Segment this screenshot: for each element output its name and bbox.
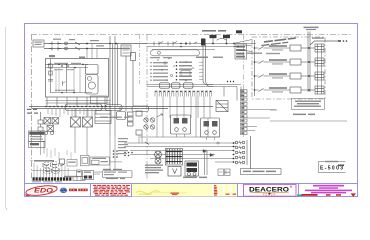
section border dash-dot middle bbox=[146, 35, 148, 182]
relay row 1 sublabel bbox=[272, 49, 283, 50]
title strip divider 4 bbox=[298, 184, 300, 197]
wire TB side ticks bbox=[199, 62, 203, 79]
panel box trio C label bbox=[101, 161, 109, 162]
terminal list TB2 bbox=[150, 62, 168, 81]
EDO logo swoosh ellipse bbox=[25, 184, 57, 197]
junction dot riser 3 bbox=[254, 75, 256, 77]
relay row 3 sublabel bbox=[272, 77, 283, 78]
EDO logo swoosh tail bbox=[26, 194, 31, 195]
regulator box AVR bbox=[86, 65, 99, 75]
junction dot riser 2 bbox=[254, 61, 256, 63]
output contact row 2 bbox=[235, 146, 245, 150]
left column note rows bbox=[118, 138, 128, 154]
control box mid bbox=[95, 111, 111, 124]
rectifier bridge 1B bbox=[83, 117, 93, 127]
relay row 1 label bbox=[269, 45, 287, 47]
wire chg bus 1 bbox=[124, 142, 236, 144]
wire strip risers bbox=[34, 163, 68, 177]
wire gen bottom links bbox=[46, 101, 111, 104]
motor cluster dashed ellipse 2 bbox=[50, 162, 58, 168]
yellow field red note bbox=[171, 193, 180, 195]
wire relay row 4 bbox=[268, 89, 291, 91]
wire underline schematic 12 bbox=[270, 120, 347, 122]
swgr label box bbox=[241, 169, 282, 175]
left frame comps row bbox=[27, 109, 38, 114]
misc symbols mid field bbox=[164, 62, 190, 77]
contact gen aux bbox=[63, 81, 66, 86]
junction dots gen bbox=[61, 65, 75, 93]
wire diode riser pair bbox=[205, 151, 208, 176]
wire riser group left2 bbox=[47, 148, 71, 161]
note text block chg bbox=[145, 165, 163, 174]
relay row 3 breaker bbox=[255, 75, 268, 78]
capacitor C1 bbox=[48, 80, 53, 82]
title strip divider 1 bbox=[90, 184, 92, 197]
breaker 72-2 dark bbox=[223, 35, 230, 38]
breaker 72-3 dark small bbox=[236, 30, 242, 33]
connector box row 2 bbox=[172, 83, 181, 88]
wire dc bus lower bbox=[32, 108, 168, 110]
voltmeter box V bbox=[168, 167, 181, 177]
wire bridge feeds bbox=[75, 109, 87, 136]
SCR stack dark bbox=[185, 161, 199, 176]
DEACERO registered mark bbox=[290, 186, 292, 188]
label row under terminal strip bbox=[32, 181, 62, 182]
wire outgoing top bbox=[310, 41, 341, 45]
label row 43SW bbox=[150, 57, 223, 59]
wire gen inner mid bbox=[46, 67, 89, 69]
title text line 4 bbox=[311, 192, 346, 194]
wire fan to relay section bbox=[233, 40, 252, 52]
transformer X symbol bbox=[155, 151, 162, 158]
annotation pill bbox=[151, 50, 200, 56]
terminal strip TS1 bbox=[33, 177, 72, 180]
node box L1 text bbox=[35, 42, 43, 45]
label schematic no 15 bbox=[106, 178, 125, 179]
wire control bus A bbox=[147, 43, 256, 45]
panel box trio B bbox=[90, 157, 110, 165]
wire breaker bridge bbox=[217, 38, 227, 40]
CT circle 2 bbox=[65, 47, 68, 50]
EDO logo swoosh tip bbox=[55, 186, 58, 188]
motor cluster dashed ellipse 4 bbox=[51, 168, 60, 174]
box 2B bbox=[77, 170, 82, 177]
relay row 1 breaker bbox=[255, 47, 268, 50]
wire breaker drop 2 bbox=[226, 38, 228, 43]
left dc components bbox=[38, 112, 54, 137]
title rev triangle bbox=[351, 193, 357, 196]
rectifier bridge 1A bbox=[71, 117, 81, 127]
aux contact box 3 bbox=[315, 72, 324, 80]
yellow cells red marks bbox=[226, 194, 237, 195]
wire gen left riser bbox=[50, 59, 52, 94]
connector strip box mid bbox=[105, 105, 122, 111]
label schematic no 10 bbox=[64, 176, 78, 177]
title strip divider 3 bbox=[237, 184, 239, 197]
wire tie lines bbox=[213, 85, 241, 113]
wire drop extensions bbox=[157, 97, 208, 138]
diode D1 bbox=[203, 150, 206, 153]
label box battery charger no2 bbox=[292, 99, 325, 110]
yellow cells gaps bbox=[212, 184, 232, 197]
contact 52G-a bbox=[49, 42, 61, 46]
charger unit box 2 bbox=[201, 118, 220, 137]
title text line 2 bbox=[319, 187, 338, 189]
relay row 4 sublabel bbox=[272, 91, 283, 92]
relay cabinet dashed border bbox=[252, 37, 325, 99]
globe wordmark holes bbox=[71, 189, 87, 190]
wire control bus B bbox=[147, 46, 243, 48]
contact 52G-b bbox=[49, 47, 61, 51]
wire chg to contacts bbox=[215, 161, 233, 163]
TB box right bbox=[235, 44, 247, 59]
wire breaker drop 1 bbox=[212, 38, 214, 43]
wire cluster bottom ties bbox=[140, 134, 220, 140]
output contact row 4 bbox=[235, 156, 245, 160]
wire coil to bus 2 bbox=[301, 61, 308, 63]
fuse 2F bbox=[75, 42, 80, 50]
rectifier bridge 0B bbox=[52, 118, 59, 125]
output contact row 5 bbox=[235, 161, 245, 165]
contact 43A bbox=[154, 42, 163, 46]
aux contact box 4 bbox=[315, 86, 324, 94]
wire gen inner vertical bbox=[65, 64, 67, 92]
junction dot riser 4 bbox=[254, 89, 256, 91]
transformer X symbol lower bbox=[155, 158, 161, 164]
junction dot bus 3 bbox=[308, 75, 310, 77]
wire dc bus taps bbox=[48, 109, 96, 118]
generator block frame bbox=[46, 59, 109, 98]
junction dots feeder bbox=[86, 43, 117, 50]
wire aux box vertical links bbox=[317, 52, 321, 86]
wire relay row 3 bbox=[268, 75, 291, 77]
junction dots bus elbow bbox=[227, 81, 234, 82]
junction dot bus 2 bbox=[308, 61, 310, 63]
wire stub left of underline bbox=[270, 109, 277, 111]
junction dots harness bbox=[155, 91, 211, 92]
diode D2 bbox=[210, 154, 213, 157]
wire gen taps bbox=[74, 68, 80, 93]
node box L1 bbox=[33, 40, 44, 47]
relay row 2 breaker bbox=[255, 61, 268, 64]
wire chg bus 4 bbox=[130, 154, 215, 156]
wire panel link bbox=[110, 161, 123, 163]
wire relay right bus a bbox=[307, 32, 309, 93]
vertical bus pair bbox=[203, 45, 213, 87]
sheet title text top middle bbox=[202, 30, 226, 32]
label above outgoing wire bbox=[312, 37, 324, 38]
wire bus to aux 2 bbox=[310, 61, 315, 63]
wire harness drops bbox=[157, 97, 210, 119]
contact 43C bbox=[186, 42, 197, 46]
wire mid bus lower bbox=[147, 86, 213, 88]
fuse column box bbox=[136, 111, 142, 135]
wire coil to bus 3 bbox=[301, 75, 308, 77]
label box right of cluster bbox=[67, 160, 77, 167]
relay row 2 label bbox=[269, 59, 287, 61]
dwg number box bbox=[319, 161, 346, 173]
section border dash-dot right of generator block bbox=[139, 35, 141, 86]
PT box bbox=[131, 53, 136, 61]
relay row 4 breaker bbox=[255, 89, 268, 92]
label schematic no 14 bbox=[30, 160, 54, 162]
svg-text:EDO: EDO bbox=[34, 187, 53, 194]
title bottom rev green mark bbox=[297, 194, 303, 196]
wire relay row 2 bbox=[268, 61, 291, 63]
label 2T bbox=[79, 57, 85, 59]
shunt symbol bbox=[216, 142, 220, 145]
junction dot cluster A bbox=[113, 150, 118, 158]
relay coil K4 bbox=[290, 87, 301, 93]
relay row 3 label bbox=[269, 73, 287, 75]
yellow field signature scribble bbox=[136, 191, 161, 195]
device table second bbox=[29, 142, 46, 148]
wire gen to dc bus bbox=[47, 97, 105, 107]
wire PT drop bbox=[126, 56, 133, 107]
label schematic no 16 bbox=[183, 177, 207, 179]
relay row 2 sublabel bbox=[272, 63, 283, 64]
connector box row 3 bbox=[184, 83, 194, 88]
wire dc bus upper bbox=[29, 106, 213, 108]
resistor R2 bbox=[49, 71, 52, 75]
aux device box mid bbox=[216, 101, 228, 112]
wire top feeder B bbox=[44, 48, 130, 50]
generator 1G circle bbox=[88, 82, 95, 89]
label 1T bbox=[49, 55, 55, 57]
aux contact box 2 bbox=[315, 58, 324, 66]
title block top rule bbox=[25, 183, 358, 185]
label gen interior row2 bbox=[54, 69, 74, 70]
battery 1B box bbox=[83, 171, 94, 180]
wire swgr feeder vertical bbox=[250, 136, 252, 169]
yellow field underline bbox=[152, 192, 186, 194]
connector box row 1 bbox=[160, 83, 170, 88]
transformer 4T cluster bbox=[121, 45, 131, 56]
wire mid bus upper bbox=[147, 84, 213, 86]
label schematic no 12 bbox=[293, 114, 315, 116]
resistor R-field bbox=[49, 64, 52, 68]
motor cluster dashed ellipse 3 bbox=[43, 168, 52, 174]
wire control bus C bbox=[152, 49, 215, 51]
terminal strip column bbox=[241, 90, 248, 135]
section border dash-dot top bbox=[31, 34, 352, 36]
page scan left edge bbox=[5, 27, 7, 208]
relay row 4 label bbox=[269, 87, 287, 89]
section border dash-dot left bbox=[31, 35, 33, 182]
fuse 5F bbox=[145, 142, 149, 145]
device table header dark bbox=[29, 131, 46, 142]
label 1B row bbox=[100, 117, 129, 118]
junction dot riser 1 bbox=[254, 47, 256, 49]
motor cluster scribbles bbox=[44, 164, 58, 171]
charger unit box 1 bbox=[171, 115, 191, 134]
wire coil to bus 1 bbox=[301, 47, 308, 49]
DEACERO logo box bbox=[244, 184, 297, 196]
junction dot cluster B bbox=[124, 152, 133, 157]
wire stubs from terminal column bbox=[247, 110, 276, 131]
DEACERO power diamond bbox=[268, 192, 271, 195]
wire arrow jumper bbox=[157, 114, 163, 117]
generator 1G body bbox=[86, 75, 99, 95]
fuse stack dark bbox=[201, 39, 206, 46]
motor cluster dashed ellipse 1 bbox=[42, 162, 50, 168]
title strip divider 2 bbox=[131, 184, 133, 197]
wire chg bus 3 bbox=[130, 150, 233, 152]
wire relay left riser bbox=[254, 40, 256, 96]
wire bus to aux 1 bbox=[310, 47, 315, 49]
label 52G bbox=[53, 39, 104, 47]
junction dot bus 1 bbox=[308, 47, 310, 49]
drawing border frame bbox=[25, 24, 358, 197]
exciter circle bbox=[88, 77, 92, 81]
rectifier bridge 0C bbox=[47, 126, 54, 132]
DEACERO orange swoosh bbox=[250, 192, 289, 194]
annotation pill circle bbox=[158, 51, 161, 54]
scattered junction dots mid bbox=[157, 58, 193, 81]
wire gen inner bottom bbox=[51, 92, 93, 94]
gen winding tick row bbox=[55, 89, 75, 92]
connector strip box left bbox=[65, 104, 102, 111]
junction dots chg right bbox=[233, 142, 235, 163]
aux contact box 1 bbox=[315, 44, 324, 52]
wire bus to aux 3 bbox=[310, 75, 315, 77]
relay coil K2 bbox=[290, 59, 301, 65]
junction dots gen inner bbox=[48, 64, 84, 69]
panel box trio B label bbox=[92, 158, 106, 159]
battery bank box bbox=[117, 112, 134, 127]
rectifier bridge 0A bbox=[44, 118, 51, 125]
relay coil K3 bbox=[290, 73, 301, 79]
arrow cluster small bbox=[60, 159, 65, 166]
junction dots dc bus bbox=[45, 106, 111, 108]
CT circle 1 bbox=[65, 42, 68, 45]
wire bus risers right bbox=[110, 106, 126, 136]
wire strip feed horizontal bbox=[32, 170, 76, 172]
wire bus to aux 4 bbox=[310, 89, 315, 91]
box above bus bbox=[91, 96, 108, 104]
wire gen inner top bbox=[46, 63, 89, 65]
label battery charger slanted bbox=[261, 37, 296, 46]
revision red column bbox=[214, 185, 218, 195]
legend box pair bbox=[218, 169, 230, 176]
wire contacts vertical bus bbox=[246, 140, 248, 165]
wire relay right bus b bbox=[309, 32, 311, 93]
sheet title text top right bbox=[304, 27, 319, 31]
distribution panel box bbox=[103, 171, 133, 178]
fuse block 4F bbox=[123, 47, 130, 53]
wire feeder drops bbox=[87, 44, 97, 59]
misc box smudge bbox=[182, 72, 189, 73]
terminal strip TS2 light bbox=[73, 177, 85, 181]
diode bridge circles bbox=[144, 118, 155, 129]
wire top feeder A bbox=[44, 43, 147, 45]
section border dash-dot right-mid bbox=[243, 35, 245, 138]
label aux row bbox=[246, 53, 280, 55]
globe logo wordmark bbox=[69, 189, 88, 192]
globe logo bbox=[60, 188, 67, 193]
wire left risers to strip bbox=[41, 135, 143, 170]
transformer 3T winding block bbox=[166, 149, 183, 166]
wire relay row 1 bbox=[268, 47, 291, 49]
harness tick row bbox=[155, 91, 212, 97]
label gen interior row1 bbox=[54, 63, 81, 64]
title bottom dwg number red bbox=[302, 194, 342, 196]
output contact row 3 bbox=[235, 151, 245, 155]
junction dots bus bbox=[180, 43, 239, 48]
terminal column fills bbox=[241, 90, 244, 134]
terminal list TB1 bbox=[176, 61, 192, 80]
contact 43B bbox=[168, 42, 177, 46]
wire chg bus 2 bbox=[124, 146, 236, 148]
title text line 3 bbox=[305, 190, 352, 192]
breaker 72-1 dark bbox=[210, 35, 217, 38]
wire coil to bus 4 bbox=[301, 89, 308, 91]
junction dot bus 4 bbox=[308, 89, 310, 91]
winding taps bbox=[166, 151, 182, 162]
panel box trio A bbox=[81, 155, 90, 166]
page speck bbox=[6, 208, 7, 209]
relay coil K1 bbox=[290, 45, 301, 51]
wire outgoing terminus dots bbox=[338, 40, 347, 42]
wire gen winding hatch bbox=[56, 68, 59, 92]
wire 1B links bbox=[94, 172, 102, 174]
output contact row 1 bbox=[235, 141, 245, 145]
connector strip box right bbox=[132, 106, 149, 112]
wire chg bus 5 bbox=[150, 158, 233, 160]
red stamp text block bbox=[93, 185, 130, 196]
dwg number suffix bbox=[338, 165, 344, 167]
yellow highlight field bbox=[132, 184, 237, 197]
label above panel box bbox=[103, 169, 122, 170]
feeder riser bundle bbox=[110, 36, 118, 106]
title text line 1 bbox=[313, 185, 344, 187]
